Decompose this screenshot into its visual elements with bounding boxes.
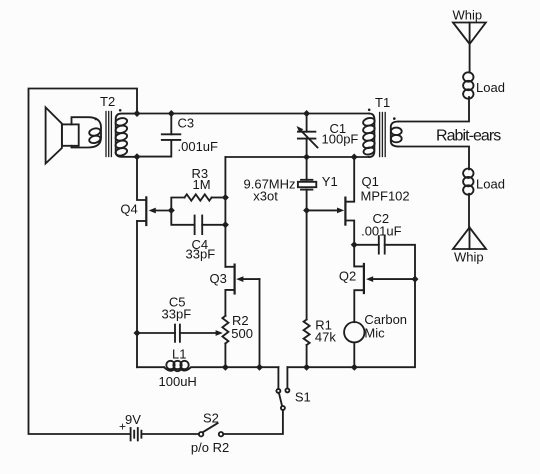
- wire bottom right rail: [287, 279, 415, 367]
- speaker LS1: [46, 107, 79, 163]
- capacitor C4: [171, 210, 225, 234]
- svg-text:MPF102: MPF102: [361, 189, 410, 204]
- svg-text:S2: S2: [203, 410, 219, 425]
- svg-text:Load: Load: [476, 177, 505, 192]
- node C5 left junction: [134, 330, 141, 337]
- wire top rail: [137, 113, 369, 115]
- transistor Q2: [354, 245, 415, 322]
- whip antenna top: [453, 23, 486, 73]
- svg-text:Q4: Q4: [120, 201, 137, 216]
- node T1 bottom junction: [351, 154, 358, 161]
- wire Q4 source down: [136, 221, 138, 367]
- svg-text:.001uF: .001uF: [178, 139, 219, 154]
- capacitor C3: [137, 114, 180, 157]
- microphone carbon mic: [344, 322, 364, 367]
- svg-text:Whip: Whip: [453, 8, 483, 23]
- svg-text:L1: L1: [172, 346, 186, 361]
- transformer T1: [362, 109, 401, 158]
- node R1 bottom junction: [303, 364, 310, 371]
- crystal Y1: [298, 157, 316, 210]
- svg-text:33pF: 33pF: [162, 306, 192, 321]
- node T2 bottom junction: [134, 153, 141, 160]
- node Y1 bottom junction: [303, 207, 310, 214]
- transistor Q4: [137, 157, 171, 225]
- svg-text:.001uF: .001uF: [361, 223, 402, 238]
- capacitor C5: [137, 325, 223, 342]
- whip antenna bottom: [453, 194, 486, 249]
- node C2 left junction: [351, 241, 358, 248]
- svg-text:47k: 47k: [315, 329, 336, 344]
- svg-text:T1: T1: [375, 95, 390, 110]
- capacitor C2: [354, 236, 415, 279]
- transformer T2: [72, 109, 138, 157]
- svg-text:p/o R2: p/o R2: [191, 440, 229, 455]
- svg-text:T2: T2: [100, 94, 115, 109]
- transistor Q3: [225, 265, 259, 316]
- svg-text:Load: Load: [476, 80, 505, 95]
- battery 9V: [131, 428, 199, 440]
- svg-text:Q2: Q2: [339, 268, 356, 283]
- node mic bottom junction: [351, 364, 358, 371]
- svg-text:100pF: 100pF: [322, 131, 359, 146]
- svg-text:500: 500: [231, 326, 253, 341]
- switch S2: [199, 423, 223, 436]
- svg-text:Y1: Y1: [322, 174, 338, 189]
- svg-text:Whip: Whip: [454, 249, 484, 264]
- svg-text:S1: S1: [295, 390, 311, 405]
- node Q2 gate junction: [412, 276, 419, 283]
- resistor R3: [171, 194, 225, 210]
- inductor Load bottom: [463, 169, 473, 195]
- svg-text:x3ot: x3ot: [253, 189, 278, 204]
- transistor Q1: [307, 157, 355, 245]
- node T2 top junction: [134, 110, 141, 117]
- wire Q3 gate down: [259, 279, 261, 367]
- node C4 right junction: [222, 221, 229, 228]
- wire T1 secondary to antennas: [399, 97, 470, 122]
- node C1 top junction: [303, 110, 310, 117]
- node R2 bottom junction: [222, 364, 229, 371]
- node Q3 gate bottom junction: [256, 364, 263, 371]
- wire left border loop: [29, 89, 138, 435]
- node C1 bottom junction: [303, 154, 310, 161]
- wire second rail: [225, 156, 369, 158]
- node C3 top junction: [168, 110, 175, 117]
- svg-text:C3: C3: [178, 116, 195, 131]
- svg-text:Q1: Q1: [362, 174, 379, 189]
- resistor R1: [304, 210, 310, 367]
- inductor L1: [137, 361, 278, 371]
- svg-text:Q3: Q3: [210, 271, 227, 286]
- resistor R2 (pot): [222, 316, 228, 367]
- node R3 right junction: [222, 194, 229, 201]
- svg-text:33pF: 33pF: [186, 246, 216, 261]
- capacitor C1 (variable): [297, 114, 318, 158]
- node Q4 gate junction: [168, 207, 175, 214]
- inductor Load top: [463, 72, 473, 98]
- wire center column: [224, 157, 226, 267]
- svg-text:Mic: Mic: [364, 325, 385, 340]
- svg-text:Rabit-ears: Rabit-ears: [436, 127, 501, 144]
- svg-text:9V: 9V: [125, 412, 141, 427]
- switch S1: [223, 367, 289, 434]
- svg-text:1M: 1M: [193, 177, 211, 192]
- svg-text:100uH: 100uH: [159, 374, 197, 389]
